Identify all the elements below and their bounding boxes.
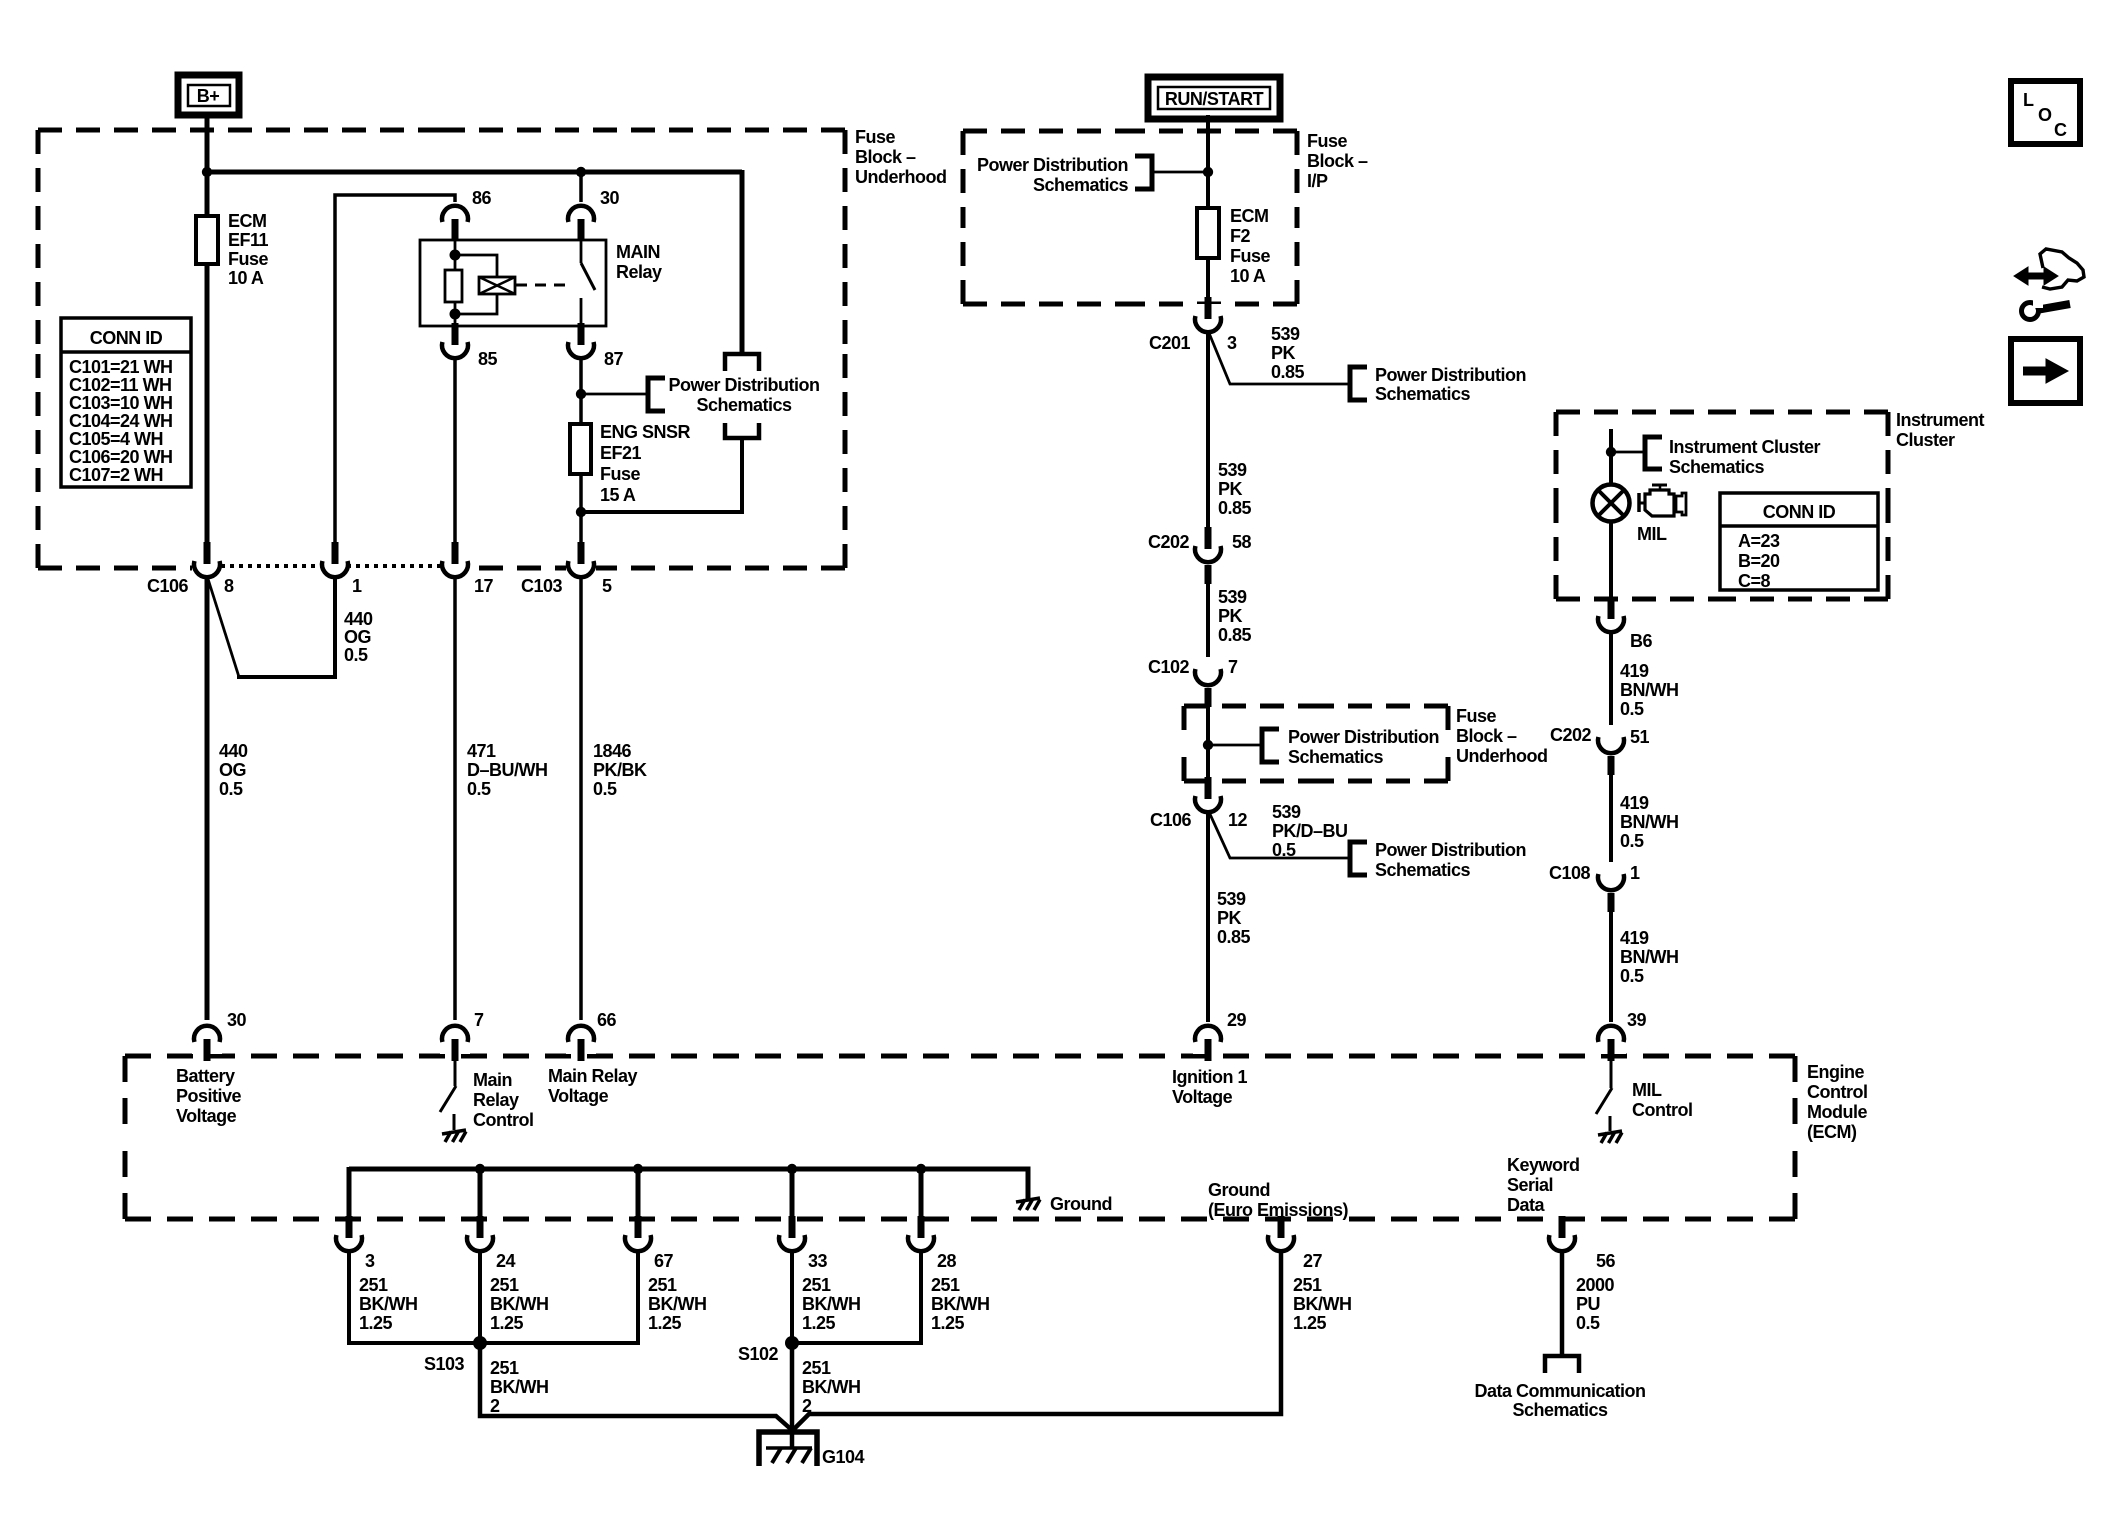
svg-text:BK/WH: BK/WH [490, 1294, 549, 1314]
svg-text:539: 539 [1218, 587, 1247, 607]
svg-text:Voltage: Voltage [1172, 1087, 1233, 1107]
label 419 BN/WH 0.5 no3 [1620, 928, 1679, 986]
svg-text:B+: B+ [197, 86, 220, 106]
svg-text:C=8: C=8 [1738, 571, 1771, 591]
label main relay control [473, 1070, 533, 1130]
node ground bus 33 [787, 1164, 797, 1174]
svg-text:0.85: 0.85 [1218, 498, 1252, 518]
wire battery positive voltage 440 OG [205, 579, 210, 1020]
relay coil wire top [454, 239, 457, 270]
svg-text:Ground: Ground [1050, 1194, 1112, 1214]
label 539 PK/D-BU 0.5 [1272, 802, 1348, 860]
connector ECM pin 7 [440, 1010, 484, 1061]
connector C102 pin 7 [1148, 657, 1238, 707]
label power distribution schematics C201 [1375, 365, 1526, 404]
fuse ECM F2 10A [1197, 208, 1219, 258]
svg-text:BK/WH: BK/WH [802, 1294, 861, 1314]
svg-text:CONN ID: CONN ID [1763, 502, 1836, 522]
offpage bracket underhood2 power distribution [1262, 729, 1279, 762]
svg-text:ECM: ECM [1230, 206, 1269, 226]
svg-text:BN/WH: BN/WH [1620, 680, 1679, 700]
wire C202 to C102 [1206, 566, 1210, 670]
relay coil wire bottom [454, 302, 457, 327]
svg-text:Positive: Positive [176, 1086, 242, 1106]
svg-text:0.85: 0.85 [1217, 927, 1251, 947]
svg-text:251: 251 [931, 1275, 960, 1295]
svg-text:Ground: Ground [1208, 1180, 1270, 1200]
wire ignition C201 to C202 [1206, 333, 1210, 541]
svg-text:251: 251 [648, 1275, 677, 1295]
svg-text:27: 27 [1303, 1251, 1323, 1271]
wire drop pin 24 [478, 1169, 483, 1220]
fuse ENG SNSR EF21 15A [570, 394, 591, 474]
svg-text:Main: Main [473, 1070, 512, 1090]
connector C103 pin 5 [521, 542, 612, 596]
ground bus wire [349, 1167, 1028, 1201]
relay coil resistor element [445, 270, 462, 302]
svg-text:0.5: 0.5 [467, 779, 491, 799]
svg-text:419: 419 [1620, 793, 1649, 813]
svg-text:G104: G104 [822, 1447, 865, 1467]
connector ECM pin 29 [1193, 1010, 1247, 1061]
label keyword serial data [1507, 1155, 1580, 1215]
label power distribution schematics C106 [1375, 840, 1526, 880]
connector ECM pin 27 [1266, 1216, 1323, 1271]
offpage bracket instrument cluster schematics [1645, 437, 1662, 469]
svg-text:Block –: Block – [1456, 726, 1517, 746]
svg-text:539: 539 [1217, 889, 1246, 909]
wire drop pin 67 [636, 1169, 641, 1220]
svg-text:33: 33 [808, 1251, 828, 1271]
svg-text:0.85: 0.85 [1218, 625, 1252, 645]
wire B+ down to fuse EF11 [205, 112, 210, 218]
svg-text:2: 2 [490, 1396, 500, 1416]
label ignition 1 voltage [1172, 1067, 1247, 1107]
svg-text:CONN ID: CONN ID [90, 328, 163, 348]
svg-text:Relay: Relay [616, 262, 662, 282]
label instrument cluster schematics [1669, 437, 1821, 477]
svg-text:Fuse: Fuse [228, 249, 269, 269]
svg-text:15 A: 15 A [600, 485, 636, 505]
svg-text:Schematics: Schematics [1288, 747, 1384, 767]
offpage top bracket power distribution [725, 354, 759, 371]
label 251 BK/WH 1.25 pin 28 [931, 1275, 990, 1333]
power symbol B+ battery feed [178, 75, 239, 115]
svg-text:S103: S103 [424, 1354, 465, 1374]
svg-text:440: 440 [344, 609, 373, 629]
svg-text:PK/BK: PK/BK [593, 760, 647, 780]
label battery positive voltage [176, 1066, 242, 1126]
svg-text:Control: Control [1807, 1082, 1867, 1102]
svg-text:Fuse: Fuse [600, 464, 641, 484]
offpage bracket IP power distribution (right) [1135, 156, 1152, 189]
svg-text:Instrument: Instrument [1896, 410, 1985, 430]
wire main relay control 471 [453, 579, 457, 1020]
wire S103 to G104 [480, 1343, 793, 1431]
label ground [1050, 1194, 1112, 1214]
offpage bracket data communication [1545, 1356, 1579, 1373]
label power distribution schematics IP [977, 155, 1128, 195]
label 251 BK/WH 1.25 pin 33 [802, 1275, 861, 1333]
wire F2 to C201 [1206, 256, 1210, 300]
engine icon [1639, 485, 1686, 516]
svg-text:29: 29 [1227, 1010, 1247, 1030]
wire relay 87 down [579, 360, 583, 398]
label 419 BN/WH 0.5 no1 [1620, 661, 1679, 719]
label fuse block IP [1307, 131, 1368, 191]
svg-text:C103: C103 [521, 576, 563, 596]
svg-text:30: 30 [227, 1010, 247, 1030]
svg-text:Voltage: Voltage [548, 1086, 609, 1106]
svg-text:86: 86 [472, 188, 492, 208]
ground main relay control [442, 1130, 466, 1142]
wire C106-12 branch diagonal [1209, 812, 1350, 858]
svg-text:Keyword: Keyword [1507, 1155, 1580, 1175]
wire main relay voltage 1846 [579, 579, 583, 1020]
svg-text:251: 251 [802, 1358, 831, 1378]
dotted connector tie line C106 [221, 558, 441, 576]
svg-text:0.5: 0.5 [1620, 831, 1644, 851]
connector ECM ground pin 28 [906, 1216, 957, 1271]
label engine control module [1807, 1062, 1867, 1142]
label fuse F2 [1230, 206, 1271, 286]
relay mechanical link dashed [516, 284, 566, 287]
svg-text:PU: PU [1576, 1294, 1600, 1314]
connector relay pin 30 [566, 172, 620, 241]
svg-text:1.25: 1.25 [490, 1313, 524, 1333]
svg-text:419: 419 [1620, 661, 1649, 681]
label ground euro emissions [1208, 1180, 1349, 1220]
label 440 OG 0.5 main [219, 741, 248, 799]
svg-text:251: 251 [490, 1358, 519, 1378]
svg-text:BK/WH: BK/WH [931, 1294, 990, 1314]
svg-text:0.5: 0.5 [1620, 699, 1644, 719]
wire EF11 to connector C106-8 [205, 262, 210, 546]
wire drop pin 3 [347, 1169, 352, 1220]
svg-text:Power Distribution: Power Distribution [1288, 727, 1439, 747]
switch MIL control [1596, 1059, 1612, 1131]
svg-text:Serial: Serial [1507, 1175, 1553, 1195]
wire through underhood box [1206, 697, 1210, 784]
label S102 [738, 1344, 779, 1364]
svg-text:Relay: Relay [473, 1090, 519, 1110]
svg-text:28: 28 [937, 1251, 957, 1271]
svg-text:0.5: 0.5 [344, 645, 368, 665]
svg-text:Ignition 1: Ignition 1 [1172, 1067, 1247, 1087]
conn id table underhood [61, 318, 191, 487]
node bus at relay 30 branch [576, 167, 586, 177]
node splice S103 [473, 1336, 487, 1350]
connector relay pin 86 [440, 188, 492, 241]
svg-text:17: 17 [474, 576, 494, 596]
svg-text:Control: Control [473, 1110, 533, 1130]
label fuse block underhood 2 [1456, 706, 1548, 766]
svg-text:C103=10 WH: C103=10 WH [69, 393, 173, 413]
connector relay pin 87 [566, 323, 624, 369]
svg-text:1.25: 1.25 [648, 1313, 682, 1333]
connector B6 [1596, 597, 1652, 651]
svg-text:Module: Module [1807, 1102, 1867, 1122]
svg-text:BK/WH: BK/WH [648, 1294, 707, 1314]
svg-text:Schematics: Schematics [1375, 384, 1471, 404]
engine control module dashed box [125, 1056, 1795, 1219]
wire S102 to G104 [790, 1343, 795, 1447]
svg-text:I/P: I/P [1307, 171, 1328, 191]
svg-text:440: 440 [219, 741, 248, 761]
node bus at B+ column [202, 167, 212, 177]
connector C106 pin 12 [1150, 777, 1248, 830]
svg-text:2000: 2000 [1576, 1275, 1615, 1295]
svg-text:0.85: 0.85 [1271, 362, 1305, 382]
node splice S102 [785, 1336, 799, 1350]
switch main relay control [440, 1059, 456, 1130]
svg-text:PK: PK [1217, 908, 1242, 928]
svg-text:Main Relay: Main Relay [548, 1066, 638, 1086]
node junction 87 branch [576, 389, 586, 399]
svg-text:7: 7 [474, 1010, 484, 1030]
connector ECM ground pin 33 [777, 1216, 828, 1271]
svg-text:251: 251 [359, 1275, 388, 1295]
svg-text:251: 251 [490, 1275, 519, 1295]
node ground bus 24 [475, 1164, 485, 1174]
svg-text:66: 66 [597, 1010, 617, 1030]
svg-text:10 A: 10 A [228, 268, 264, 288]
connector ECM ground pin 24 [465, 1216, 516, 1271]
svg-text:Schematics: Schematics [1033, 175, 1129, 195]
label 251 BK/WH 1.25 pin 67 [648, 1275, 707, 1333]
svg-text:ENG SNSR: ENG SNSR [600, 422, 691, 442]
wire IP bracket branch [1152, 171, 1208, 174]
svg-text:251: 251 [1293, 1275, 1322, 1295]
connector ECM pin 66 [566, 1010, 617, 1061]
icon LOC box [2011, 81, 2080, 144]
svg-text:Schematics: Schematics [696, 395, 792, 415]
svg-text:Power Distribution: Power Distribution [668, 375, 819, 395]
svg-text:Power Distribution: Power Distribution [1375, 840, 1526, 860]
wire cluster stub [1609, 429, 1613, 486]
node relay coil top [450, 250, 461, 261]
svg-text:1.25: 1.25 [931, 1313, 965, 1333]
wire C202-51 to C108 [1609, 775, 1613, 875]
svg-text:Fuse: Fuse [1456, 706, 1497, 726]
node relay coil bottom [450, 309, 461, 320]
offpage bottom bracket power distribution [725, 423, 759, 438]
svg-text:ECM: ECM [228, 211, 267, 231]
wire cluster bracket branch [1611, 451, 1645, 454]
label 251 BK/WH 2 S102 [802, 1358, 861, 1416]
offpage bracket to power distribution (left) [648, 378, 665, 411]
svg-text:BN/WH: BN/WH [1620, 812, 1679, 832]
connector C106 pin 8 [147, 542, 234, 596]
wire relay coil feed from C106-1 [335, 195, 455, 546]
svg-text:(ECM): (ECM) [1807, 1122, 1857, 1142]
svg-text:C106: C106 [147, 576, 189, 596]
label G104 [822, 1447, 865, 1467]
svg-text:39: 39 [1627, 1010, 1647, 1030]
relay switch contact 30 side [580, 239, 583, 263]
svg-text:Power Distribution: Power Distribution [1375, 365, 1526, 385]
svg-text:Data: Data [1507, 1195, 1546, 1215]
svg-text:Schematics: Schematics [1669, 457, 1765, 477]
svg-text:Battery: Battery [176, 1066, 235, 1086]
svg-text:C201: C201 [1149, 333, 1191, 353]
label MAIN relay [616, 242, 662, 282]
svg-text:C105=4 WH: C105=4 WH [69, 429, 163, 449]
wire bus corner down to offpage top bracket [740, 170, 745, 355]
svg-text:Underhood: Underhood [855, 167, 947, 187]
fuse block underhood dashed box [38, 130, 845, 568]
svg-text:A=23: A=23 [1738, 531, 1780, 551]
relay switch blade [581, 263, 595, 290]
svg-text:EF21: EF21 [600, 443, 642, 463]
svg-text:C106: C106 [1150, 810, 1192, 830]
relay coil winding branch [455, 255, 497, 314]
svg-text:0.5: 0.5 [1576, 1313, 1600, 1333]
wire C106-12 to ECM 29 [1206, 813, 1210, 1025]
wire relay 85 to C106-17 [453, 360, 457, 546]
relay MAIN box [420, 240, 606, 326]
svg-text:12: 12 [1228, 810, 1248, 830]
wire C201 branch diagonal [1209, 333, 1350, 384]
svg-text:D–BU/WH: D–BU/WH [467, 760, 548, 780]
svg-text:539: 539 [1271, 324, 1300, 344]
svg-text:C106=20 WH: C106=20 WH [69, 447, 173, 467]
label S103 [424, 1354, 465, 1374]
connector C201 pin 3 [1149, 297, 1237, 353]
label MIL control [1632, 1080, 1692, 1120]
svg-text:Schematics: Schematics [1375, 860, 1471, 880]
connector ECM pin 30 [192, 1010, 247, 1061]
wire underhood 2 branch [1208, 744, 1262, 747]
label 2000 PU 0.5 [1576, 1275, 1615, 1333]
connector relay pin 85 [440, 323, 498, 369]
connector C202 pin 58 [1148, 527, 1252, 584]
svg-text:539: 539 [1218, 460, 1247, 480]
svg-text:BK/WH: BK/WH [490, 1377, 549, 1397]
indicator lamp MIL [1593, 485, 1630, 522]
connector ECM ground pin 3 [334, 1216, 375, 1271]
svg-text:Underhood: Underhood [1456, 746, 1548, 766]
node cluster junction [1606, 447, 1616, 457]
wire RUN/START down to fuse F2 [1206, 115, 1210, 210]
relay switch contact 87 side [580, 298, 583, 327]
wire MIL lamp to B6 [1609, 522, 1613, 600]
svg-text:C102=11 WH: C102=11 WH [69, 375, 172, 395]
svg-text:F2: F2 [1230, 226, 1250, 246]
ground MIL control [1598, 1131, 1622, 1143]
svg-text:PK: PK [1271, 343, 1296, 363]
wire ground group S102 [792, 1253, 921, 1343]
connector ECM pin 56 [1547, 1216, 1616, 1271]
svg-text:51: 51 [1630, 727, 1650, 747]
label 1846 PK/BK 0.5 [593, 741, 647, 799]
fuse ECM EF11 10A [196, 216, 218, 300]
label 539 PK 0.85 no1 [1271, 324, 1305, 382]
connector ECM ground pin 67 [623, 1216, 674, 1271]
svg-text:EF11: EF11 [228, 230, 269, 250]
relay coil winding box [479, 277, 515, 294]
svg-text:OG: OG [219, 760, 246, 780]
svg-text:Fuse: Fuse [1230, 246, 1271, 266]
bus wire B+ feed [205, 170, 742, 175]
svg-text:BK/WH: BK/WH [359, 1294, 418, 1314]
svg-text:419: 419 [1620, 928, 1649, 948]
label power distribution schematics (fuse block) [668, 375, 819, 415]
connector C202 pin 51 [1550, 725, 1650, 775]
svg-text:MAIN: MAIN [616, 242, 660, 262]
svg-text:L: L [2023, 90, 2034, 110]
label fuse EF21 [600, 422, 691, 505]
label 539 PK 0.85 no3 [1218, 587, 1252, 645]
wire B6 to C202-51 [1609, 634, 1613, 738]
svg-text:56: 56 [1596, 1251, 1616, 1271]
svg-text:0.5: 0.5 [1620, 966, 1644, 986]
svg-text:0.5: 0.5 [593, 779, 617, 799]
connector C108 pin 1 [1549, 862, 1640, 912]
svg-text:Instrument Cluster: Instrument Cluster [1669, 437, 1821, 457]
svg-text:Block –: Block – [855, 147, 916, 167]
wire 87 branch to offpage bracket [581, 393, 648, 396]
svg-text:C108: C108 [1549, 863, 1591, 883]
svg-text:1: 1 [1630, 863, 1640, 883]
svg-text:Control: Control [1632, 1100, 1692, 1120]
svg-text:C107=2 WH: C107=2 WH [69, 465, 163, 485]
svg-text:Engine: Engine [1807, 1062, 1864, 1082]
label 440 OG 0.5 jumper [344, 609, 373, 665]
svg-text:251: 251 [802, 1275, 831, 1295]
svg-text:1.25: 1.25 [359, 1313, 393, 1333]
svg-text:Data Communication: Data Communication [1474, 1381, 1645, 1401]
label MIL [1637, 524, 1667, 544]
svg-text:C: C [2054, 120, 2067, 140]
svg-text:S102: S102 [738, 1344, 779, 1364]
svg-text:O: O [2038, 105, 2052, 125]
jumper wire pin8 to pin1 440 OG [208, 579, 335, 677]
ground symbol internal [1016, 1198, 1040, 1210]
label 539 PK 0.85 no4 [1217, 889, 1251, 947]
node IP junction [1203, 167, 1213, 177]
svg-text:10 A: 10 A [1230, 266, 1266, 286]
node ground bus 28 [916, 1164, 926, 1174]
svg-text:1: 1 [352, 576, 362, 596]
wire C108 to ECM 39 [1609, 912, 1613, 1025]
svg-text:87: 87 [604, 349, 624, 369]
wire EF21 to C103-5 [579, 472, 583, 546]
conn id table cluster [1720, 493, 1878, 591]
connector ECM pin 39 [1596, 1010, 1647, 1061]
svg-text:8: 8 [224, 576, 234, 596]
svg-text:30: 30 [600, 188, 620, 208]
svg-text:0.5: 0.5 [219, 779, 243, 799]
wire ground group S103 [349, 1253, 638, 1343]
offpage bracket C106 power distribution [1350, 842, 1367, 875]
svg-text:BK/WH: BK/WH [1293, 1294, 1352, 1314]
svg-text:3: 3 [1227, 333, 1237, 353]
svg-text:Schematics: Schematics [1512, 1400, 1608, 1420]
svg-text:PK: PK [1218, 479, 1243, 499]
svg-text:C202: C202 [1148, 532, 1190, 552]
label fuse EF11 [228, 211, 269, 288]
label data communication schematics [1474, 1381, 1645, 1420]
svg-text:7: 7 [1228, 657, 1238, 677]
label 419 BN/WH 0.5 no2 [1620, 793, 1679, 851]
label 539 PK 0.85 no2 [1218, 460, 1252, 518]
svg-text:85: 85 [478, 349, 498, 369]
svg-text:C102: C102 [1148, 657, 1190, 677]
svg-text:58: 58 [1232, 532, 1252, 552]
offpage bracket C201 power distribution [1350, 367, 1367, 400]
label 251 BK/WH 1.25 pin 24 [490, 1275, 549, 1333]
